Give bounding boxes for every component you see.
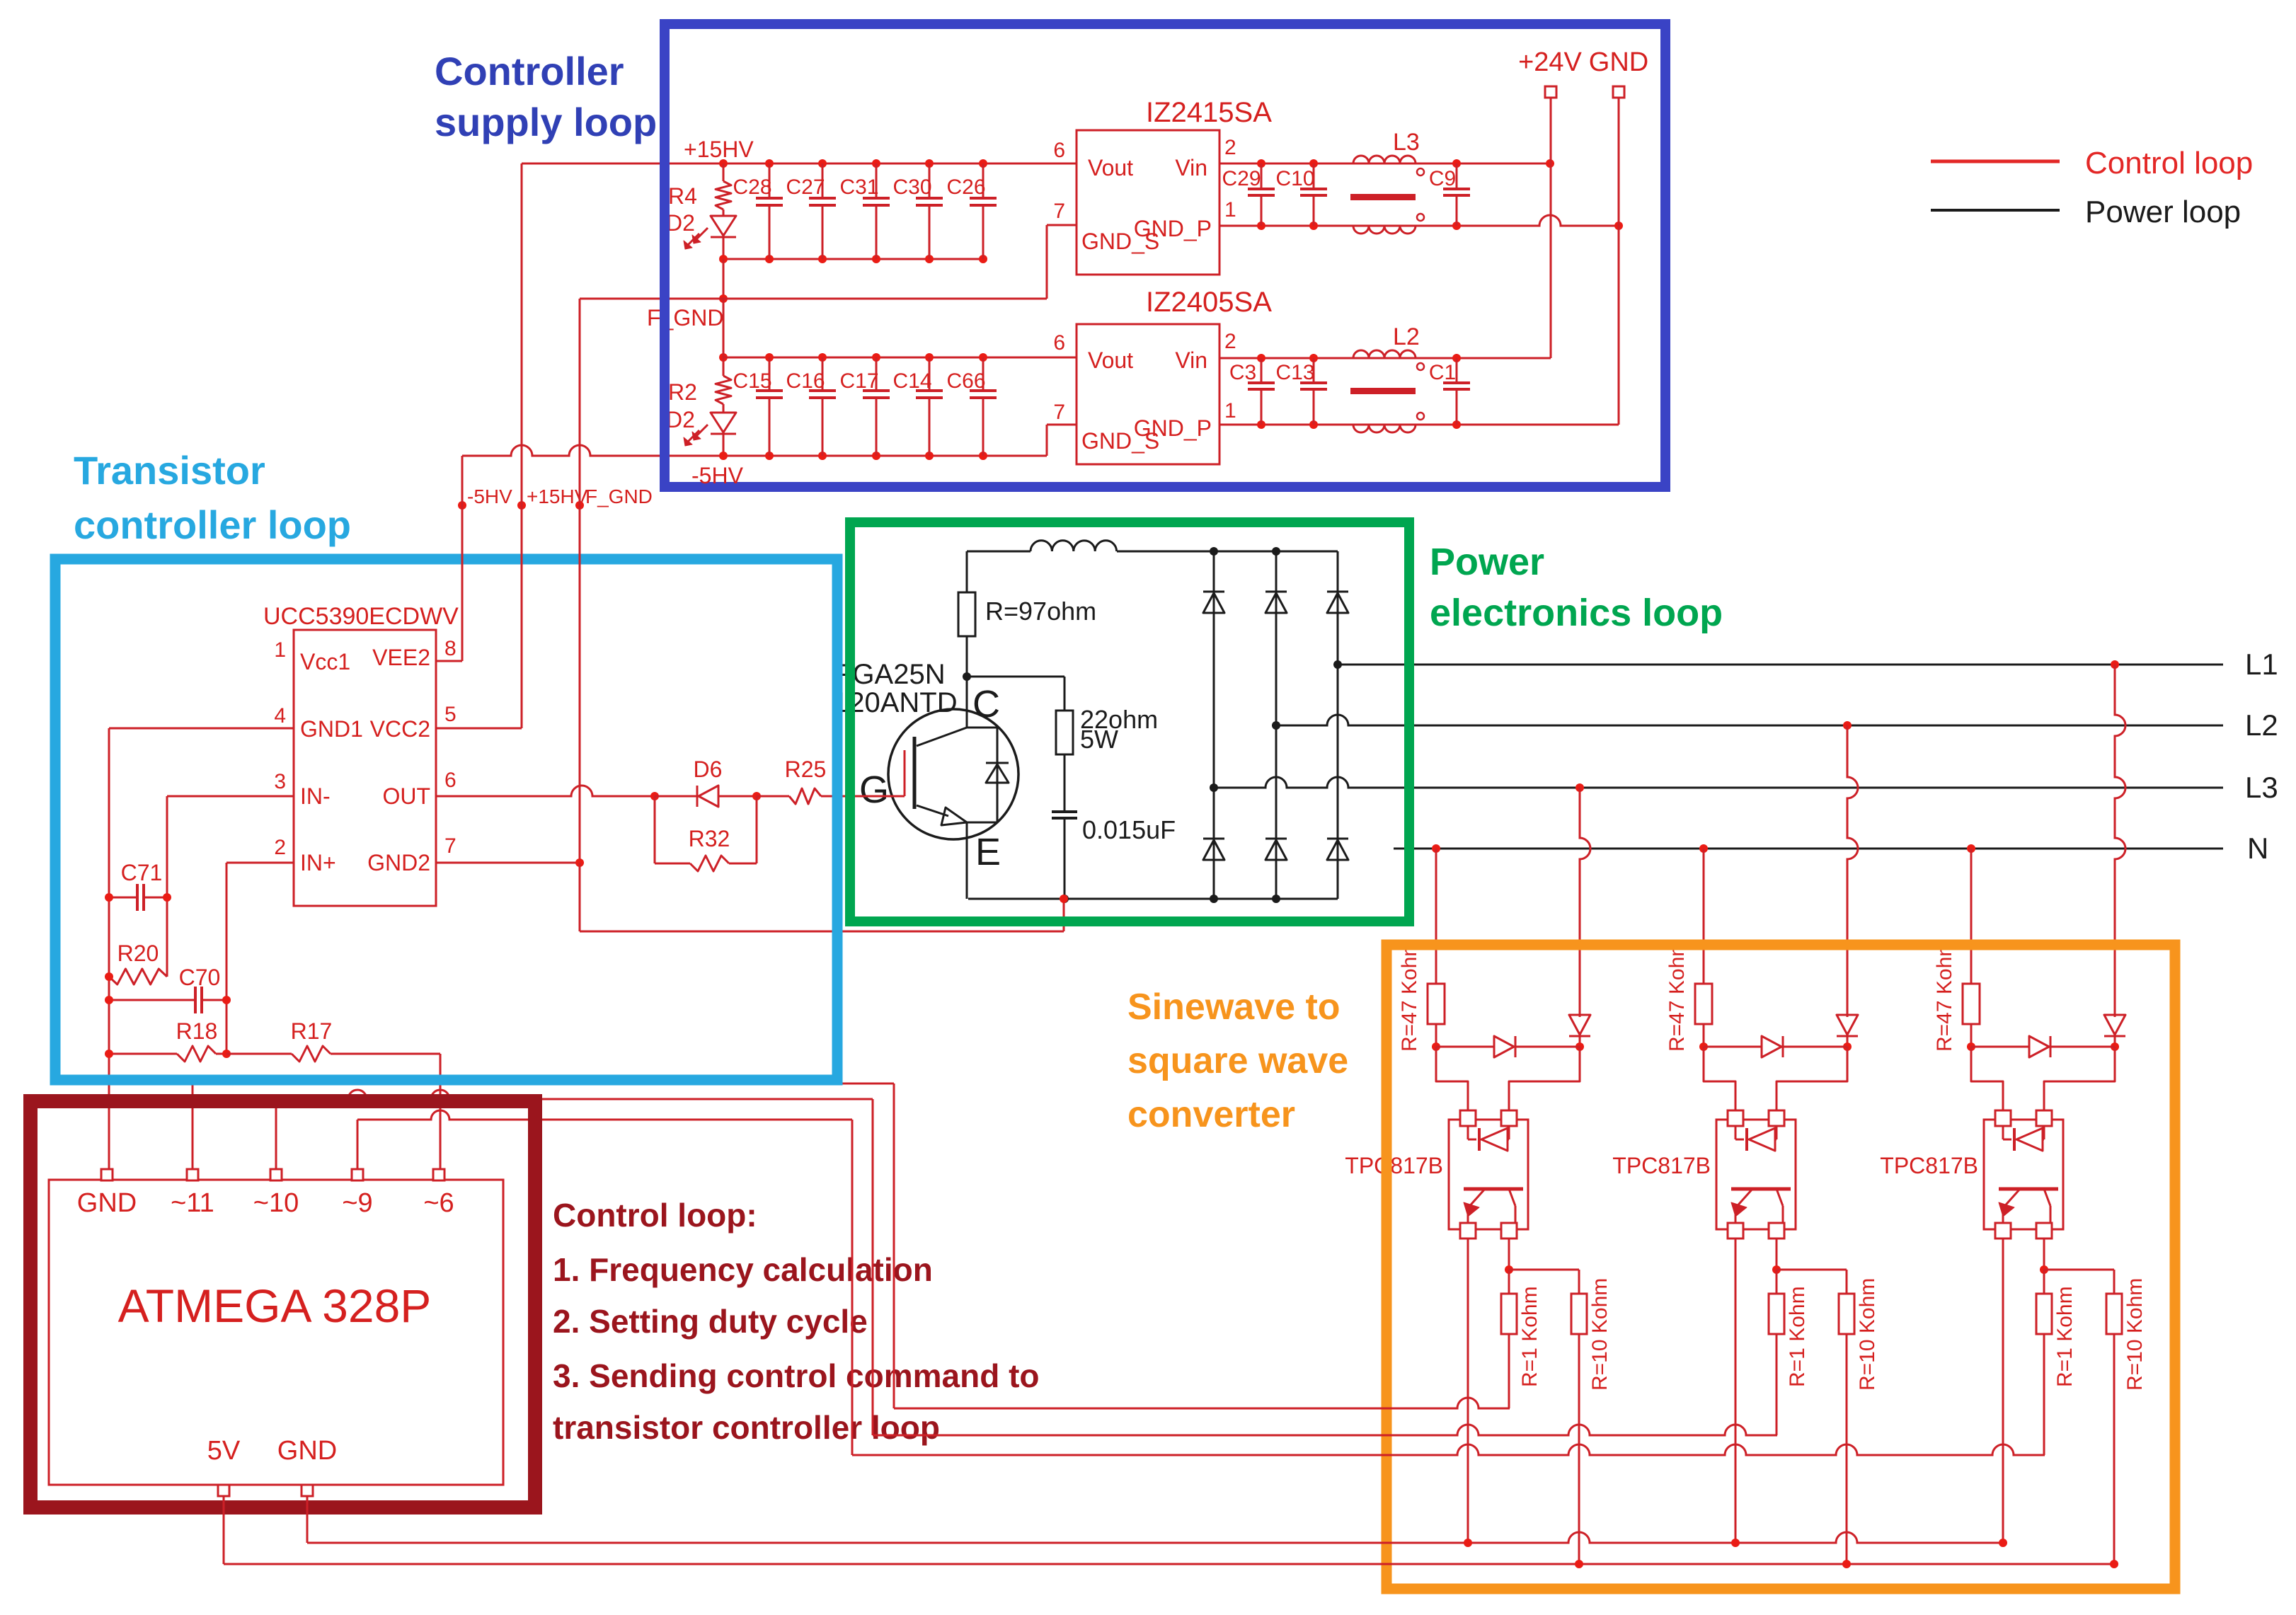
svg-text:R=47 Kohm: R=47 Kohm — [1933, 939, 1956, 1052]
node R18 right — [222, 1050, 231, 1058]
wire VEE2 to -5HV — [436, 505, 462, 661]
svg-text:1: 1 — [274, 638, 286, 662]
node ch1 R10K bus E — [1575, 1560, 1583, 1568]
svg-text:VCC2: VCC2 — [370, 716, 430, 742]
node ch1 cathode junction — [1575, 1042, 1584, 1051]
resistor R=97ohm — [958, 551, 975, 677]
svg-text:2. Setting duty cycle: 2. Setting duty cycle — [553, 1303, 868, 1340]
label -5HV net — [467, 485, 512, 507]
node C70 left — [105, 996, 113, 1004]
label R18 — [176, 1018, 218, 1044]
opto U7 transistor — [1999, 1189, 2058, 1223]
resistor R20 — [109, 969, 167, 984]
svg-text:C15: C15 — [733, 369, 771, 393]
resistor ch1 R=1Kohm — [1501, 1270, 1517, 1408]
svg-text:controller loop: controller loop — [74, 502, 351, 547]
label U3 pin7 — [1053, 401, 1065, 424]
label C16 — [786, 369, 825, 393]
svg-text:Vout: Vout — [1088, 347, 1133, 373]
svg-text:N: N — [2247, 832, 2268, 865]
svg-text:converter: converter — [1127, 1094, 1295, 1135]
label U3 pin6 — [1053, 331, 1065, 355]
wire bus C overlay — [1372, 1454, 1408, 1456]
wire ch3 emitter to bus D — [2002, 1238, 2004, 1543]
label U3 Vout — [1088, 347, 1133, 373]
capacitor C31 — [863, 163, 890, 259]
capacitor C16 — [809, 357, 836, 456]
diode bridge D1 bottom — [1203, 839, 1224, 860]
label R32 — [689, 826, 730, 851]
wire +24V vertical — [1219, 98, 1551, 358]
title Power electronics loop — [1430, 541, 1723, 634]
label U2 GND_S — [1081, 229, 1159, 254]
node bottom cap — [1060, 895, 1069, 903]
label L3 — [2245, 771, 2278, 804]
label U3 GND_P — [1134, 415, 1212, 441]
label R2 — [668, 379, 697, 405]
node ch2 emitter bus D — [1731, 1539, 1740, 1547]
svg-text:1: 1 — [1224, 198, 1236, 222]
svg-text:2: 2 — [1224, 330, 1236, 353]
inductor L3 choke top — [1353, 156, 1424, 176]
sinewave-to-square-wave converter box (orange) — [1387, 945, 2175, 1589]
capacitor C13 — [1300, 358, 1327, 425]
node collector junction — [963, 672, 971, 681]
wire U3 GNDP line — [1219, 424, 1619, 426]
pad U5 pin3 — [1501, 1223, 1517, 1238]
wire lower rail link — [723, 299, 725, 357]
resistor ch3 R=10Kohm — [2106, 1270, 2122, 1564]
label U1 IN- — [300, 783, 331, 809]
label L2 choke — [1393, 323, 1420, 350]
capacitor C17 — [863, 357, 890, 456]
svg-text:6: 6 — [1053, 331, 1065, 355]
svg-text:C10: C10 — [1275, 167, 1314, 190]
svg-text:Sinewave to: Sinewave to — [1127, 987, 1341, 1028]
pad U5 pin4 — [1460, 1223, 1476, 1238]
wire +15HV feed overlay — [521, 495, 523, 587]
svg-text:OUT: OUT — [382, 783, 430, 809]
resistor ch1 R=47Kohm — [1428, 984, 1445, 1047]
svg-text:R18: R18 — [176, 1018, 218, 1044]
optocoupler U7 TPC817B box — [1984, 1120, 2063, 1229]
power electronics loop box (green) — [850, 522, 1409, 921]
label C9 — [1429, 167, 1456, 190]
label C31 — [839, 176, 878, 199]
svg-text:5V: 5V — [207, 1436, 241, 1466]
pin pad ~11 — [187, 1169, 198, 1180]
svg-text:C1: C1 — [1429, 361, 1456, 384]
svg-text:R20: R20 — [117, 941, 159, 966]
node col2 top — [1272, 547, 1280, 556]
svg-text:GND_P: GND_P — [1134, 216, 1212, 241]
svg-text:GND: GND — [77, 1188, 137, 1218]
wire line N — [1394, 848, 2223, 850]
node ch2 anode junction — [1699, 1042, 1708, 1051]
label D2b — [666, 407, 695, 432]
svg-text:IZ2415SA: IZ2415SA — [1146, 97, 1272, 128]
wire F_GND link vertical — [723, 259, 725, 299]
label C70 — [179, 965, 221, 990]
label D6 — [694, 757, 723, 782]
label ch3 R=10 Kohm — [2123, 1278, 2147, 1391]
inductor L2 choke core — [1350, 388, 1416, 394]
label U1 pin1 — [274, 638, 286, 662]
IGBT collector lead — [917, 677, 967, 746]
terminal GND24 — [1613, 86, 1624, 98]
svg-text:0.015uF: 0.015uF — [1082, 815, 1176, 844]
wire IN- net — [167, 796, 294, 977]
resistor ch2 R=1Kohm — [1769, 1270, 1784, 1435]
diode bridge D2 top — [1265, 592, 1287, 613]
svg-text:G: G — [859, 769, 889, 811]
wire bus B — [873, 1425, 1777, 1435]
label 0.015uF — [1082, 815, 1176, 844]
label pin ~6 — [423, 1188, 454, 1218]
node rail junctions upper — [765, 159, 987, 168]
svg-text:1: 1 — [1224, 399, 1236, 423]
title Sinewave to square wave converter — [1127, 987, 1348, 1135]
label U1 pin3 — [274, 770, 286, 793]
diode bridge D3 top — [1327, 592, 1348, 613]
diode D6 — [655, 786, 757, 807]
svg-text:C: C — [972, 683, 1000, 725]
label C71 — [121, 860, 163, 885]
node ch3 emitter bus D — [1999, 1539, 2007, 1547]
svg-text:+15HV: +15HV — [684, 137, 754, 162]
wire ch3 L vertical — [2115, 665, 2125, 1017]
node -5HV label — [458, 501, 466, 510]
label U1 Vcc1 — [300, 649, 350, 674]
wire bus A overlay — [1372, 1408, 1408, 1410]
node Vin junctions upper — [1257, 159, 1554, 168]
svg-text:5: 5 — [444, 703, 457, 726]
label D2a — [666, 210, 695, 236]
node col1 top — [1210, 547, 1218, 556]
label FGA25N 120ANTD — [833, 659, 958, 718]
label C — [972, 683, 1000, 725]
label R25 — [785, 757, 827, 782]
pad U7 pin2 — [2036, 1110, 2052, 1126]
label ch1 R=47 Kohm — [1398, 939, 1421, 1052]
label U2 pin1 — [1224, 198, 1236, 222]
svg-text:2: 2 — [274, 836, 286, 859]
capacitor C27 — [809, 163, 836, 259]
label E — [975, 831, 1001, 873]
svg-text:C27: C27 — [786, 176, 825, 199]
wire ~11 to bus A — [193, 1076, 894, 1408]
label C66 — [946, 369, 985, 393]
svg-text:electronics loop: electronics loop — [1430, 592, 1723, 634]
opto U6 transistor — [1731, 1189, 1791, 1223]
label U5 TPC817B — [1345, 1153, 1443, 1178]
svg-text:Vin: Vin — [1175, 155, 1207, 180]
svg-text:C14: C14 — [892, 369, 931, 393]
label U2 GND_P — [1134, 216, 1212, 241]
pad U7 pin4 — [1995, 1223, 2011, 1238]
wire ch1 collector — [1508, 1238, 1510, 1270]
opto U6 LED — [1735, 1126, 1776, 1151]
wire line L1 — [1338, 664, 2223, 666]
node ch1 anode junction — [1432, 1042, 1440, 1051]
wire IN+ net — [226, 863, 294, 1054]
wire bus C — [852, 1444, 2045, 1455]
label U1 pin7 — [444, 834, 457, 858]
wire bottom rail — [968, 898, 1338, 900]
svg-text:R=10 Kohm: R=10 Kohm — [1588, 1278, 1612, 1391]
capacitor C71 — [109, 884, 167, 911]
wire VCC2 to +15HV — [436, 505, 522, 728]
svg-text:Power: Power — [1430, 541, 1544, 583]
svg-text:D6: D6 — [694, 757, 723, 782]
svg-text:7: 7 — [1053, 200, 1065, 223]
node ch2 R10K bus E — [1842, 1560, 1851, 1568]
wire GND to bus D — [307, 1495, 2003, 1543]
diode ch1 line side — [1569, 1015, 1590, 1047]
wire line L2 — [1276, 715, 2223, 725]
svg-text:1. Frequency calculation: 1. Frequency calculation — [553, 1251, 933, 1288]
label pin ~11 — [171, 1188, 214, 1218]
label ch2 R=10 Kohm — [1856, 1278, 1879, 1391]
capacitor C14 — [916, 357, 943, 456]
wire +15V gnd bus — [723, 258, 983, 260]
IC U3 IZ2405SA box — [1077, 324, 1219, 464]
label ch3 R=47 Kohm — [1933, 939, 1956, 1052]
label R20 — [117, 941, 159, 966]
title Controller supply loop — [435, 49, 657, 144]
node OUT D6 left — [650, 792, 659, 800]
node ch3 L tap — [2111, 660, 2119, 669]
svg-text:7: 7 — [444, 834, 457, 858]
label C1 — [1429, 361, 1456, 384]
wire +15HV rail — [522, 163, 1077, 165]
wire ch2 emitter to bus D — [1735, 1238, 1737, 1543]
label R4 — [668, 183, 697, 209]
wire GND pin overlay — [306, 1495, 309, 1543]
node ch1 N tap — [1432, 844, 1440, 853]
label +15HV net — [527, 485, 588, 507]
wire -5HV feed vertical — [461, 456, 464, 661]
label U2 pin2 — [1224, 136, 1236, 159]
wire top rail collector to bridge — [967, 551, 1338, 553]
pin pad GND bottom — [302, 1485, 313, 1496]
node GNDP junctions upper — [1257, 222, 1623, 230]
svg-text:C66: C66 — [946, 369, 985, 393]
label R=97ohm — [985, 597, 1096, 626]
wire ch2 collector branch — [1776, 1269, 1847, 1271]
svg-text:GND2: GND2 — [367, 850, 430, 875]
wire U2 GNDP line — [1219, 215, 1619, 226]
svg-text:R=10 Kohm: R=10 Kohm — [1856, 1278, 1879, 1391]
svg-text:L2: L2 — [1393, 323, 1420, 350]
node ch3 R10K bus E — [2110, 1560, 2118, 1568]
label -5HV rail — [691, 463, 744, 488]
opto U5 transistor — [1464, 1189, 1523, 1223]
label U1 pin2 — [274, 836, 286, 859]
label +24V — [1518, 47, 1582, 77]
optocoupler U6 TPC817B box — [1716, 1120, 1796, 1229]
opto U7 LED — [2003, 1126, 2044, 1151]
node L2 tap — [1272, 721, 1280, 730]
IC U4 ATMEGA328P box — [49, 1180, 503, 1485]
svg-text:+24V: +24V — [1518, 47, 1582, 77]
inductor L_boost top — [1031, 541, 1117, 551]
svg-text:R=1 Kohm: R=1 Kohm — [1518, 1286, 1542, 1387]
label N — [2247, 832, 2268, 865]
capacitor 0.015uF — [1052, 812, 1077, 899]
label U1 GND1 — [300, 716, 363, 742]
wire bridge column3 — [1337, 551, 1339, 899]
wire bus D overlay — [1372, 1542, 1408, 1544]
label IZ2415SA — [1146, 97, 1272, 128]
label U1 VCC2 — [370, 716, 430, 742]
svg-text:C28: C28 — [733, 176, 771, 199]
resistor R25 — [757, 788, 905, 804]
svg-text:4: 4 — [274, 704, 286, 728]
label IZ2405SA — [1146, 287, 1272, 318]
node L1 tap — [1333, 660, 1342, 669]
svg-text:D2: D2 — [666, 210, 695, 236]
wire GND vertical — [1219, 98, 1619, 425]
label L1 — [2245, 648, 2278, 681]
pad U5 pin1 — [1460, 1110, 1476, 1126]
label ch3 R=1 Kohm — [2053, 1286, 2077, 1387]
svg-text:R32: R32 — [689, 826, 730, 851]
svg-text:IN-: IN- — [300, 783, 331, 809]
capacitor C70 — [109, 987, 226, 1013]
legend power loop — [1931, 195, 2241, 229]
node ch2 cathode junction — [1843, 1042, 1852, 1051]
label U1 pin4 — [274, 704, 286, 728]
wire ch2 collector — [1776, 1238, 1778, 1270]
svg-text:R=1 Kohm: R=1 Kohm — [1786, 1286, 1809, 1387]
capacitor C15 — [756, 357, 783, 456]
capacitor C28 — [756, 163, 783, 259]
svg-text:UCC5390ECDWV: UCC5390ECDWV — [263, 603, 459, 630]
svg-text:L3: L3 — [2245, 771, 2278, 804]
wire GND2 line — [436, 862, 580, 864]
pin pad GND top — [101, 1169, 113, 1180]
IGBT Q1 circle — [888, 709, 1018, 839]
resistor 22ohm 5W — [1056, 677, 1073, 812]
node Vin junctions lower — [1257, 354, 1461, 362]
svg-text:transistor controller loop: transistor controller loop — [553, 1409, 940, 1446]
svg-text:square wave: square wave — [1127, 1040, 1348, 1081]
inductor L2 choke bottom — [1353, 413, 1424, 432]
node F_GND label — [575, 501, 584, 510]
svg-text:L2: L2 — [2245, 708, 2278, 742]
label U1 pin8 — [444, 637, 457, 660]
node GNDP junctions lower — [1257, 420, 1461, 429]
optocoupler U5 TPC817B box — [1449, 1120, 1528, 1229]
svg-text:C16: C16 — [786, 369, 825, 393]
pad U6 pin2 — [1769, 1110, 1784, 1126]
controller supply loop box (blue) — [665, 24, 1665, 487]
svg-text:Control loop:: Control loop: — [553, 1197, 757, 1234]
wire ch1 N vertical — [1435, 849, 1437, 984]
wire 5V to bus E — [224, 1495, 2114, 1564]
wire +15HV feed vertical — [521, 163, 523, 728]
svg-text:TPC817B: TPC817B — [1880, 1153, 1978, 1178]
svg-text:GND1: GND1 — [300, 716, 363, 742]
svg-text:F_GND: F_GND — [647, 305, 723, 331]
resistor R4 — [716, 163, 731, 216]
svg-text:C26: C26 — [946, 176, 985, 199]
label U2 Vout — [1088, 155, 1133, 180]
label pin GND — [77, 1188, 137, 1218]
wire F_GND feed overlay — [579, 495, 581, 587]
wire bus A — [894, 1398, 1510, 1408]
node lower rail junction — [719, 353, 728, 362]
node bus junctions upper — [719, 255, 987, 263]
svg-text:C71: C71 — [121, 860, 163, 885]
pad U7 pin1 — [1995, 1110, 2011, 1126]
capacitor C1 — [1443, 358, 1470, 425]
label U1 IN+ — [300, 850, 336, 875]
label C30 — [892, 176, 931, 199]
wire U3 Vin line — [1219, 357, 1551, 360]
svg-text:TPC817B: TPC817B — [1345, 1153, 1443, 1178]
svg-text:5W: 5W — [1080, 725, 1118, 754]
wire ch1 L vertical — [1580, 788, 1590, 1017]
pad U6 pin3 — [1769, 1223, 1784, 1238]
capacitor C10 — [1300, 163, 1327, 226]
svg-text:~9: ~9 — [342, 1188, 372, 1218]
pin pad ~10 — [270, 1169, 282, 1180]
svg-text:~10: ~10 — [253, 1188, 299, 1218]
svg-text:C29: C29 — [1222, 167, 1261, 190]
wire collector branch to 22ohm — [967, 676, 1064, 678]
svg-text:3. Sending control command to: 3. Sending control command to — [553, 1357, 1039, 1394]
diode ch3 antiparallel — [1971, 1036, 2115, 1057]
resistor ch3 R=47Kohm — [1963, 984, 1980, 1047]
wire ch3 opto pin1 jog — [1971, 1047, 2003, 1111]
svg-text:R25: R25 — [785, 757, 827, 782]
IC U1 UCC5390ECDWV box — [294, 630, 436, 906]
wire -5HV bus — [462, 425, 1077, 456]
svg-text:C9: C9 — [1429, 167, 1456, 190]
inductor L3 choke bottom — [1353, 214, 1424, 234]
svg-text:R=97ohm: R=97ohm — [985, 597, 1096, 626]
svg-text:R=10 Kohm: R=10 Kohm — [2123, 1278, 2147, 1391]
node C71 right — [163, 893, 171, 902]
label ch1 R=1 Kohm — [1518, 1286, 1542, 1387]
capacitor C9 — [1443, 163, 1470, 226]
IC U2 IZ2415SA box — [1077, 130, 1219, 275]
label F_GND — [647, 305, 723, 331]
resistor ch2 R=10Kohm — [1839, 1270, 1854, 1564]
node ch3 N tap — [1967, 844, 1975, 853]
resistor R18 — [109, 1046, 226, 1062]
pad U6 pin1 — [1728, 1110, 1743, 1126]
diode bridge D2 bottom — [1265, 839, 1287, 860]
node ch2 N tap — [1699, 844, 1708, 853]
wire ~10 to bus B — [276, 1090, 873, 1435]
node +15HV label — [517, 501, 526, 510]
label 22ohm 5W — [1080, 705, 1158, 754]
wire -5HV feed overlay — [461, 495, 464, 587]
label pin ~9 — [342, 1188, 372, 1218]
label pin GND bottom — [277, 1436, 337, 1466]
svg-text:Transistor: Transistor — [74, 448, 265, 493]
inductor L2 choke top — [1353, 350, 1424, 370]
pin pad ~6 — [433, 1169, 444, 1180]
title Control loop list — [553, 1197, 1039, 1446]
diode ch1 antiparallel — [1436, 1036, 1580, 1057]
svg-text:GND_P: GND_P — [1134, 415, 1212, 441]
svg-text:8: 8 — [444, 637, 457, 660]
node R18 left — [105, 1050, 113, 1058]
